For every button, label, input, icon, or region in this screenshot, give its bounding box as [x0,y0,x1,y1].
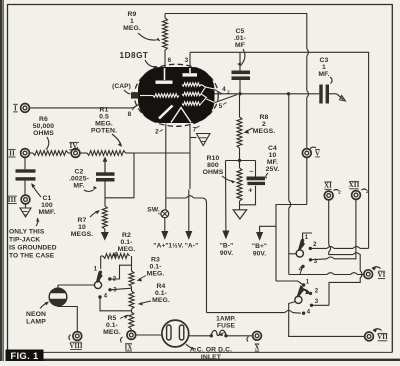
svg-text:FUSE: FUSE [217,323,235,330]
svg-text:2: 2 [338,190,341,196]
tip jack IV [69,142,80,157]
fuse [210,330,228,337]
tip jack IX [120,331,135,352]
wire II down [24,157,26,169]
svg-text:III: III [8,196,17,204]
label R9 1 MEG [123,11,160,41]
wire to lower contact 4 [207,311,301,314]
wire XI continuation down right [329,255,362,306]
wire R9-top rail y13 [165,14,307,49]
chassis arrow right of C3 [329,94,346,101]
wire contact1 stub [303,233,312,240]
label R8 2 MEGS [244,114,276,135]
svg-text:MEG.: MEG. [95,121,113,128]
wire R4 R5 [131,309,133,312]
svg-text:MEG.: MEG. [123,25,141,32]
label SW [147,207,160,215]
svg-text:1AMP.: 1AMP. [216,316,236,323]
svg-text:ONLY THIS: ONLY THIS [9,229,45,236]
svg-text:VII: VII [377,333,388,341]
junction R8 bottom [238,159,241,162]
pin 3 label [185,57,189,64]
pin 7 label [193,126,200,134]
tip jack V [302,147,320,157]
svg-text:MEG.: MEG. [103,329,121,336]
wire R1 right to grid line [134,152,190,154]
wire pin7 down [190,124,197,190]
left switch contact 1 [94,267,102,274]
svg-text:MEG.: MEG. [147,271,165,278]
svg-text:R9: R9 [128,11,137,18]
svg-text:MEG.: MEG. [152,297,170,304]
switch SW [161,210,169,218]
resistor R8 [237,94,242,161]
B+ arrow [257,226,276,239]
svg-text:6: 6 [168,57,172,64]
svg-text:4: 4 [104,294,108,300]
label C4 10 MF 25V [266,145,280,179]
svg-text:R10: R10 [207,155,220,162]
ground below jack III [20,204,31,217]
tip jack VII [365,329,388,341]
wire pin5 stub [214,95,238,103]
A- arrow [186,190,192,239]
svg-text:OHMS: OHMS [33,130,54,137]
B- arrow [223,231,229,238]
svg-text:MF.: MF. [318,71,329,78]
wire contact4 [100,297,132,311]
wire neon to pivot [58,284,94,286]
wire C4 bottom [240,186,256,205]
svg-text:LAMP: LAMP [26,319,46,326]
wire filament tap y198 [166,196,206,313]
wire contact3 [110,288,132,290]
label R1 0.5 MEG POTEN [91,107,121,147]
label B- 90V [220,243,234,258]
svg-text:90V.: 90V. [253,251,266,258]
svg-text:+: + [248,186,253,195]
wire IV to R1 [80,152,87,154]
note only this tip-jack grounded [9,218,57,260]
svg-text:50,000: 50,000 [33,123,55,130]
svg-text:R7: R7 [78,217,87,224]
svg-text:(CAP): (CAP) [112,83,131,90]
wire R3 R4 [131,287,133,292]
svg-text:3: 3 [113,288,117,294]
tube U1 1D8GT envelope and internals [134,64,218,126]
svg-text:1D8GT: 1D8GT [120,51,149,60]
svg-text:R2: R2 [122,232,131,239]
svg-text:IV.: IV. [70,142,79,150]
svg-text:3: 3 [315,299,319,305]
svg-text:R6: R6 [39,116,48,123]
wire B- rail down [225,161,227,232]
svg-text:FIG. 1: FIG. 1 [10,351,39,361]
svg-text:–: – [250,169,254,176]
wire rail2 y52 [190,52,369,248]
capacitor C3 [319,85,329,104]
svg-text:1: 1 [322,64,326,71]
svg-text:.01-: .01- [234,35,246,42]
tip jack VI [364,267,386,279]
svg-text:A.C. OR D.C.: A.C. OR D.C. [190,347,232,354]
svg-text:MEGS.: MEGS. [71,231,93,238]
wire contact3 row [311,200,356,260]
label R2 0.1 MEG [112,232,136,257]
tip jack I [13,104,29,113]
wire pin2 down [165,124,167,210]
grid cap terminal [131,92,139,98]
wire IX to plug [136,334,162,336]
resistor R2 [101,254,130,259]
left switch contact 2 [108,277,117,283]
wire plug to fuse [189,335,211,337]
svg-text:IX: IX [125,344,133,351]
resistor R5 [129,312,134,331]
svg-text:4: 4 [307,310,311,316]
svg-text:10: 10 [78,224,86,231]
capacitor C5 [232,52,251,94]
wire jack I to pin8 [29,104,139,108]
svg-text:IS GROUNDED: IS GROUNDED [9,245,57,252]
wire contact2 row [310,247,368,249]
svg-text:VI: VI [378,271,386,279]
resistor R9 [163,14,168,69]
wire jack V to corner y204.5 [306,157,308,204]
svg-text:C2: C2 [75,169,84,176]
svg-text:OHMS: OHMS [203,169,224,176]
svg-text:I: I [14,104,17,112]
resistor R7 [102,206,107,232]
svg-text:1: 1 [130,18,134,25]
upper switch contact 4 [299,265,305,273]
svg-text:2: 2 [366,189,369,195]
svg-text:1: 1 [306,280,310,286]
svg-text:MF.: MF. [73,183,84,190]
label R10 800 OHMS [203,155,236,183]
svg-text:R1: R1 [100,107,109,114]
svg-text:10: 10 [269,152,277,159]
bottom edge line [43,352,400,359]
wire hop rail1 over rail2 [307,49,309,57]
potentiometer R1 [87,151,134,156]
svg-text:MMF.: MMF. [38,209,55,216]
junction C5 bottom [238,92,241,95]
label 1 AMP FUSE [216,316,236,337]
wire XI down [329,200,360,255]
wire corner left y204.5 [276,205,307,282]
label NEON LAMP [26,302,49,326]
wire R8R10 junction box [226,161,256,177]
label R4 0.1 MEG [138,283,170,305]
junction x288 y94 [287,92,290,95]
svg-text:1: 1 [94,267,98,273]
label A+ 1.5V A- [153,242,198,250]
label AC OR DC INLET [186,344,232,361]
svg-text:"A+": "A+" [153,243,168,250]
svg-text:C4: C4 [268,145,277,152]
svg-text:2: 2 [227,90,230,95]
neon lamp [49,285,67,306]
svg-text:R8: R8 [260,114,269,121]
svg-text:C5: C5 [236,28,245,35]
svg-text:R3: R3 [151,257,160,264]
R1 wiper arrow [103,157,108,173]
pin 2 label [155,129,163,136]
wire R2 left down to contact1 [100,256,102,269]
chassis ground at pin7 [197,134,211,146]
left switch contact 3 [108,288,117,294]
svg-text:2: 2 [315,289,319,295]
svg-text:2: 2 [313,242,317,248]
wire neon bottom to VIII [58,306,77,332]
lower switch contact 4 [302,310,311,316]
svg-text:MEGS.: MEGS. [253,128,275,135]
svg-text:.0025-: .0025- [69,176,89,183]
svg-text:X: X [254,345,259,352]
svg-text:1½V.: 1½V. [168,242,183,250]
label C2 .0025 MF [69,169,97,192]
svg-text:MF: MF [235,42,245,49]
svg-text:NEON: NEON [26,311,46,318]
svg-text:8: 8 [128,111,132,118]
svg-text:0.1-: 0.1- [155,290,167,297]
wire fuse to jack X [226,335,253,337]
AC plug [162,320,189,347]
svg-text:25V.: 25V. [266,166,280,173]
svg-text:100: 100 [41,202,53,209]
left switch contact 4 [98,294,107,300]
label R5 0.1 MEG [103,315,128,337]
pin 8 label [128,107,136,119]
svg-text:TO THE CASE: TO THE CASE [9,253,55,260]
svg-text:R5: R5 [108,315,117,322]
resistor R3 [129,271,134,287]
lower switch pivot and arm [295,287,311,304]
lower switch contact 1 [302,280,310,287]
svg-text:VIII: VIII [69,343,82,350]
tip jack X [247,331,262,351]
svg-text:1: 1 [305,235,309,241]
svg-text:0.1-: 0.1- [149,264,161,271]
label C3 1 MF [318,57,332,84]
capacitor C1 [16,169,36,180]
svg-text:SW.: SW. [147,207,160,214]
resistor R6 [29,151,71,156]
wire R2 right down [131,256,133,271]
svg-text:C3: C3 [320,57,329,64]
label C5 .01 MF [234,28,246,66]
svg-text:3: 3 [185,57,189,64]
label R7 10 MEGS [71,211,100,239]
tip jack III [7,195,30,204]
svg-text:R4: R4 [157,283,166,290]
svg-text:2: 2 [262,121,266,128]
resistor R10 [237,161,242,205]
svg-text:90V.: 90V. [220,250,233,257]
wire hop jackV-line over y94 [307,91,309,149]
svg-text:0.1-: 0.1- [106,322,118,329]
resistor R4 [129,291,134,309]
lower switch contact 3 [310,299,319,307]
upper switch contact 1 [301,235,309,242]
label R3 0.1 MEG [137,257,165,282]
tip jack XII [349,181,370,199]
arrow below R10 [233,205,246,219]
svg-text:5: 5 [219,103,223,110]
pin 6 label [168,57,172,64]
svg-text:0.5: 0.5 [99,114,109,121]
pin 4 label [222,86,230,95]
wire x288 down to upper pivot [289,94,296,275]
label B+ 90V [252,243,267,258]
svg-text:0.1-: 0.1- [120,239,132,246]
svg-text:II: II [9,149,15,157]
label (CAP) [112,83,131,94]
page left edge [0,0,3,361]
label C1 100 MMF [32,184,56,217]
wire rail1 down to jack V [306,56,308,91]
svg-text:XII: XII [349,181,360,189]
svg-text:"B-": "B-" [220,243,234,250]
svg-text:POTEN.: POTEN. [91,128,117,135]
left switch pivot and arm [94,273,101,289]
A+ arrow [162,218,168,239]
wire contact2 jog [110,265,132,279]
figure label FIG. 1 [6,350,44,363]
wire pivot down to jack VI row [289,267,364,275]
wire C1 to III [24,181,26,195]
upper switch pivot and arm [296,241,304,257]
svg-text:XI: XI [324,182,332,190]
capacitor C4 electrolytic [247,169,266,195]
svg-text:MEG.: MEG. [118,246,136,253]
tip jack VIII [69,332,83,350]
svg-text:"A-": "A-" [185,243,199,250]
tip jack II [8,149,29,158]
svg-text:4: 4 [222,86,226,93]
wire pins45 to C3 y94 [214,93,319,95]
wire lower pivot to VII [289,302,365,337]
upper switch contact 2 [309,242,317,250]
tip jack XI [324,182,341,200]
svg-text:V: V [315,149,320,157]
svg-text:TIP-JACK: TIP-JACK [9,237,40,244]
svg-text:C1: C1 [43,195,52,202]
lower switch contact 2 [309,289,319,296]
wire B+ net to lower contact1 [276,281,304,285]
svg-text:800: 800 [207,162,219,169]
label R6 50000 OHMS [33,116,55,150]
svg-text:MF.: MF. [267,159,278,166]
label 1D8GT [120,51,157,69]
wire R1 right loop down [105,153,134,198]
wire pin4 stub [214,89,223,94]
upper switch contact 3 [309,258,318,265]
svg-text:INLET: INLET [201,354,222,361]
wire C2 bottom [104,182,106,207]
svg-text:"B+": "B+" [252,243,267,250]
pin 5 label [219,103,227,111]
capacitor C2 [96,172,115,181]
svg-text:2: 2 [155,129,159,136]
wire lower contact3 [312,304,330,306]
arrow below R7 [102,233,109,240]
